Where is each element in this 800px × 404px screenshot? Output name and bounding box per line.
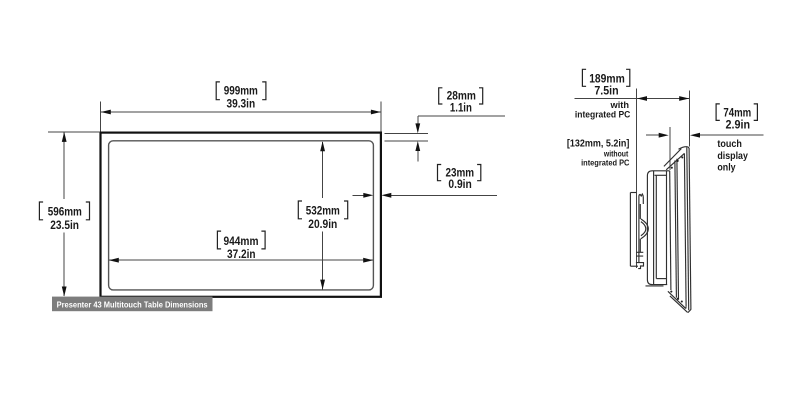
side view glass panel <box>664 147 691 311</box>
dimension 532mm active area height <box>298 141 347 289</box>
svg-text:999mm: 999mm <box>224 84 258 98</box>
dimension 999mm overall width <box>100 82 381 132</box>
svg-text:integrated PC: integrated PC <box>581 158 629 168</box>
side view screw dots <box>670 156 683 302</box>
svg-text:532mm: 532mm <box>306 204 340 218</box>
svg-text:Presenter 43 Multitouch Table: Presenter 43 Multitouch Table Dimensions <box>57 300 208 310</box>
dimension 596mm overall height <box>39 132 100 297</box>
svg-text:display: display <box>717 150 748 162</box>
svg-text:7.5in: 7.5in <box>594 83 618 97</box>
svg-text:touch: touch <box>717 138 742 150</box>
side view mount clip <box>636 194 648 269</box>
front view outer frame <box>101 133 381 297</box>
svg-text:944mm: 944mm <box>224 234 259 248</box>
svg-text:39.3in: 39.3in <box>226 97 255 111</box>
side view bottom chamfer <box>668 291 691 312</box>
dimension 74mm touch display depth <box>646 104 764 174</box>
dimension 944mm active area width <box>109 231 373 263</box>
svg-text:37.2in: 37.2in <box>227 247 256 261</box>
dimension 28mm top bezel <box>384 88 505 162</box>
svg-text:integrated PC: integrated PC <box>575 110 631 121</box>
note 132mm depth without integrated PC <box>567 139 630 168</box>
side view enclosure body <box>646 171 671 290</box>
svg-text:1.1in: 1.1in <box>450 100 472 114</box>
dimension 23mm side bezel <box>353 165 498 198</box>
side view panel layers <box>675 153 686 306</box>
dimension 189mm depth with integrated PC <box>574 69 689 268</box>
svg-text:only: only <box>717 162 735 174</box>
svg-text:596mm: 596mm <box>48 205 82 219</box>
svg-text:20.9in: 20.9in <box>308 217 337 231</box>
side view wall plate <box>630 193 638 267</box>
front view display area <box>109 141 374 290</box>
svg-text:0.9in: 0.9in <box>448 177 471 191</box>
svg-text:23.5in: 23.5in <box>50 218 79 232</box>
caption label box <box>52 297 213 312</box>
svg-text:2.9in: 2.9in <box>726 118 751 132</box>
